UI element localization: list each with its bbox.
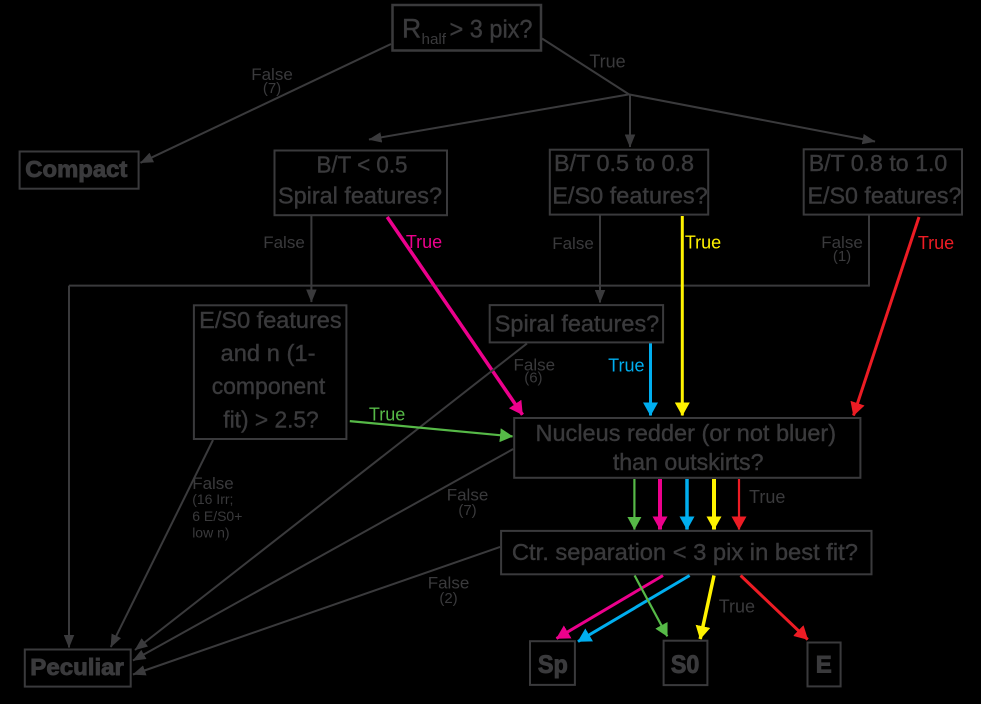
svg-text:B/T 0.8 to 1.0: B/T 0.8 to 1.0	[809, 150, 948, 176]
box: S0	[664, 641, 708, 685]
svg-text:True: True	[749, 487, 785, 507]
svg-text:Spiral features?: Spiral features?	[278, 183, 442, 209]
svg-text:E/S0 features?: E/S0 features?	[808, 183, 962, 209]
svg-text:(1): (1)	[833, 248, 851, 265]
svg-text:False: False	[552, 234, 594, 253]
box: Sp	[530, 641, 575, 685]
arrow green: E/S0 True to Nucleus	[350, 421, 513, 436]
svg-text:fit) > 2.5?: fit) > 2.5?	[223, 407, 318, 433]
svg-text:True: True	[719, 597, 755, 617]
svg-text:(2): (2)	[439, 590, 457, 607]
svg-text:False: False	[263, 233, 305, 252]
arrow red short: Nucleus to Ctr	[738, 479, 740, 530]
arrow green short: Nucleus to Ctr	[633, 479, 635, 530]
wire: B/T 0.8-1.0 False down to bus	[868, 215, 870, 287]
wire: E/S0 False (16 Irr) to Peculiar	[111, 440, 213, 647]
arrow red: B/T 0.8-1.0 True to Nucleus	[854, 217, 920, 416]
wire: Spiral False (6) to Peculiar	[135, 343, 527, 650]
arrow yellow short: Nucleus to Ctr	[712, 479, 716, 530]
box: E	[808, 643, 841, 687]
arrow blue short: Nucleus to Ctr	[685, 479, 689, 530]
svg-text:than outskirts?: than outskirts?	[613, 449, 764, 475]
box: Rhalf question	[393, 5, 542, 51]
svg-text:Compact: Compact	[25, 156, 127, 182]
wire: junction to B/T 0.5-0.8 box	[629, 94, 631, 147]
svg-text:(7): (7)	[458, 502, 476, 519]
wire: horizontal bus	[69, 285, 869, 287]
wire: Ctr False (2) to Peculiar	[133, 547, 500, 675]
svg-text:6 E/S0+: 6 E/S0+	[192, 508, 242, 524]
svg-text:low n): low n)	[192, 525, 229, 541]
svg-text:Nucleus redder (or not bluer): Nucleus redder (or not bluer)	[536, 420, 837, 446]
svg-text:(7): (7)	[263, 80, 281, 97]
box: Peculiar	[25, 650, 131, 687]
arrow yellow: B/T 0.5-0.8 True to Nucleus	[681, 216, 684, 416]
svg-text:Sp: Sp	[538, 651, 568, 679]
box: Compact	[20, 152, 139, 189]
box: B/T 0.5 to 0.8 E/S0 features?	[550, 150, 708, 215]
arrow magenta: B/T<0.5 True to Nucleus	[387, 217, 522, 415]
svg-text:> 3 pix?: > 3 pix?	[450, 16, 533, 44]
arrow red: Ctr to E	[741, 576, 808, 640]
arrow blue: Spiral True to Nucleus	[649, 343, 652, 415]
arrow magenta short: Nucleus to Ctr	[658, 479, 662, 530]
wire: junction to B/T 0.5 box	[369, 94, 629, 139]
svg-text:True: True	[685, 233, 721, 253]
arrow magenta: Ctr to Sp	[557, 576, 664, 639]
box: E/S0 features and n	[194, 305, 347, 439]
svg-text:(6): (6)	[524, 370, 542, 387]
wire: B/T 0.5-0.8 False down to Spiral box	[599, 215, 601, 303]
svg-text:and n (1-: and n (1-	[221, 340, 316, 366]
wire: junction to B/T 0.8-1.0 box	[629, 94, 875, 141]
arrow blue: Ctr to Sp	[578, 576, 690, 642]
svg-text:(16 Irr;: (16 Irr;	[192, 491, 233, 507]
svg-text:E/S0 features: E/S0 features	[199, 307, 341, 333]
svg-text:half: half	[422, 31, 447, 48]
box: Ctr separation	[501, 531, 871, 574]
svg-text:True: True	[369, 405, 405, 425]
svg-text:True: True	[589, 52, 625, 72]
svg-text:R: R	[402, 14, 421, 44]
svg-text:Spiral features?: Spiral features?	[495, 311, 660, 337]
svg-text:Peculiar: Peculiar	[30, 654, 124, 680]
svg-text:component: component	[212, 373, 326, 399]
wire: Rhalf False to Compact	[141, 44, 392, 163]
arrow green: Ctr to S0	[635, 576, 668, 637]
svg-text:E/S0 features?: E/S0 features?	[552, 183, 708, 209]
box: Spiral features?	[490, 305, 663, 342]
svg-text:True: True	[918, 233, 954, 253]
wire: B/T<0.5 False down to E/S0 box	[310, 216, 312, 302]
svg-text:B/T < 0.5: B/T < 0.5	[317, 152, 408, 178]
wire: bus down to Peculiar	[68, 286, 70, 648]
svg-text:True: True	[608, 356, 644, 376]
svg-text:S0: S0	[671, 651, 700, 679]
svg-text:True: True	[406, 232, 442, 252]
box: Nucleus redder	[514, 418, 860, 478]
wire: Rhalf True to junction	[542, 39, 629, 95]
wire: Nucleus False (7) to Peculiar	[133, 449, 513, 661]
svg-text:Ctr. separation < 3 pix in bes: Ctr. separation < 3 pix in best fit?	[512, 539, 858, 565]
box: B/T < 0.5 Spiral features?	[275, 151, 448, 216]
arrow yellow: Ctr to S0	[700, 576, 714, 640]
svg-text:E: E	[816, 652, 832, 679]
box: B/T 0.8 to 1.0 E/S0 features?	[804, 149, 962, 214]
svg-text:B/T 0.5 to 0.8: B/T 0.5 to 0.8	[554, 150, 694, 176]
